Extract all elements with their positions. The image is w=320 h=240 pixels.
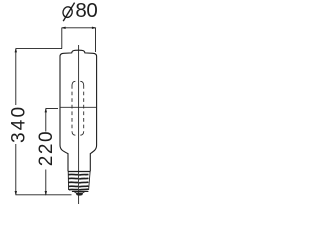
screw thread 5: [69, 188, 89, 191]
arc tube bottom-right corner: [80, 132, 83, 136]
arc tube bottom-left corner: [72, 132, 75, 136]
screw thread 3: [69, 181, 89, 184]
svg-text:80: 80: [75, 0, 97, 22]
eyelet tip: [74, 192, 84, 193]
340 top extension line: [16, 48, 62, 50]
screw base top edge: [68, 171, 90, 173]
svg-text:340: 340: [8, 105, 29, 143]
screw thread 1: [68, 173, 88, 176]
base bottom rim: [72, 190, 89, 192]
phi80 left extension line: [61, 28, 63, 49]
arc tube top-left corner: [72, 81, 75, 85]
arc tube left wall (dashed): [71, 85, 73, 132]
220 bottom arrow: [45, 191, 47, 196]
screw thread 2: [68, 177, 88, 180]
bulb envelope outline: [60, 50, 97, 145]
220 top extension line: [46, 108, 58, 110]
phi symbol: [62, 3, 75, 22]
340 top arrow: [15, 48, 17, 53]
340 bottom arrow: [15, 191, 17, 196]
svg-text:220: 220: [36, 130, 57, 167]
arc tube top-right corner: [80, 81, 83, 85]
phi80 dimension line: [62, 27, 96, 29]
340 bottom extension line: [16, 194, 72, 196]
340 dimension line (broken by text): [15, 49, 17, 105]
bulb neck taper: [60, 145, 97, 171]
lamp vertical centerline: [78, 45, 80, 204]
screw thread 4: [69, 185, 89, 188]
220 dimension line (broken by text): [45, 109, 47, 132]
arc tube right wall (dashed): [83, 85, 85, 132]
phi80 right extension line: [95, 28, 97, 52]
screw base side outline: [68, 172, 90, 191]
light-center horizontal line: [60, 106, 97, 108]
220 top arrow: [45, 108, 47, 113]
phi80 right arrow: [92, 27, 97, 29]
phi80 left arrow: [61, 27, 66, 29]
